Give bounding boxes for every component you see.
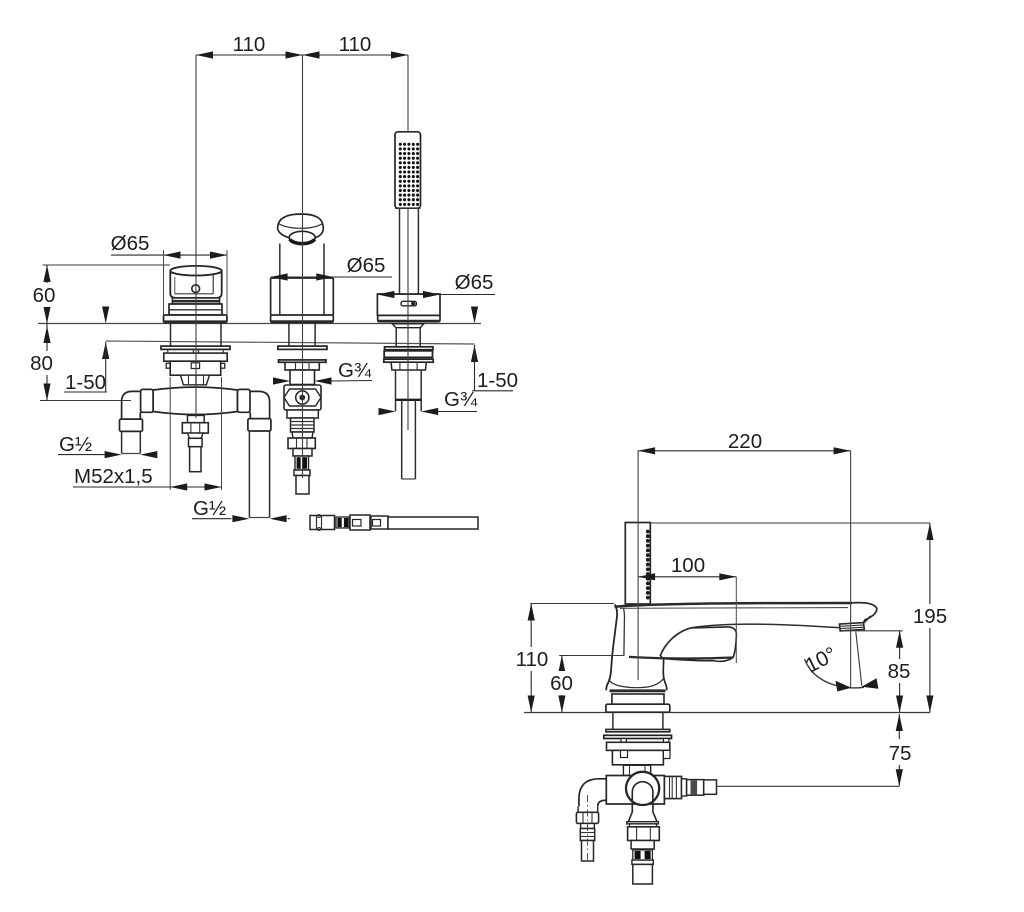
right port <box>664 776 681 798</box>
mounting block right view <box>612 750 663 764</box>
svg-text:Ø65: Ø65 <box>347 254 386 277</box>
svg-text:G½: G½ <box>59 433 92 456</box>
spout upper column <box>279 244 281 316</box>
handle stem below deck <box>170 323 172 347</box>
valve neck right view <box>623 765 650 775</box>
shower G3/4 tube <box>395 370 397 411</box>
220 right extension / outlet axis <box>850 451 852 688</box>
spout neck G3/4 <box>290 370 315 385</box>
spout body <box>271 277 334 279</box>
spout lower washer <box>287 410 318 418</box>
left elbow right view <box>579 779 606 807</box>
handle screw <box>192 285 200 293</box>
spout small section <box>293 449 312 457</box>
svg-text:110: 110 <box>233 33 266 56</box>
faucet body side profile <box>606 605 617 691</box>
escutcheon base right view <box>610 689 666 692</box>
dimension 80 vertical <box>40 400 131 402</box>
handle washer <box>161 346 230 349</box>
handle front panel <box>174 277 176 294</box>
aerator outlet <box>839 623 864 631</box>
hose column right view <box>625 523 650 605</box>
spout flange <box>271 315 334 322</box>
spout underside <box>662 624 841 652</box>
svg-text:110: 110 <box>339 33 372 56</box>
dimension 220 <box>638 450 851 452</box>
10 degree annotation <box>856 632 862 686</box>
shower ring 1 <box>385 347 433 350</box>
spout hose ring <box>294 470 310 476</box>
center line hand shower overlay <box>407 55 409 132</box>
mounting plate right view <box>607 742 670 750</box>
handle threaded rods <box>192 349 194 353</box>
left elbow pipe <box>122 391 141 419</box>
hose tube <box>388 517 478 529</box>
svg-text:M52x1,5: M52x1,5 <box>74 465 153 488</box>
spout washer <box>278 346 327 349</box>
label G3/4 spout <box>273 377 290 384</box>
deck bottom surface line left view <box>106 341 475 344</box>
svg-text:60: 60 <box>33 284 56 307</box>
washer 2 right view <box>604 735 672 738</box>
valve body right view <box>606 776 664 805</box>
body inner contour <box>623 609 626 657</box>
handle cap cylinder <box>170 271 221 298</box>
extension line 100 dimension overlay <box>735 577 737 663</box>
spout hex nut <box>288 438 315 449</box>
dimension 1-50 left deck thickness <box>102 307 109 324</box>
washer 1 right view <box>606 729 670 731</box>
spout outlet head <box>278 214 324 244</box>
dimension 75 <box>898 714 900 786</box>
spout side profile top edge <box>615 603 853 607</box>
valve ball circle <box>626 772 659 805</box>
shower ring 3 <box>384 359 433 362</box>
handle mounting plate <box>164 353 227 361</box>
handle neck <box>172 298 219 304</box>
valve body horizontal cylinder <box>153 387 237 414</box>
label M52x1,5 <box>169 377 171 490</box>
bottom port black bands <box>633 850 653 860</box>
dimension 110 left <box>196 54 303 56</box>
svg-text:100: 100 <box>671 554 705 577</box>
spout hose connector black bands <box>295 456 309 470</box>
svg-text:1-50: 1-50 <box>477 369 518 392</box>
shower trapezoid below deck <box>392 324 424 328</box>
spout hose tube <box>296 476 309 495</box>
shower stem <box>395 328 397 347</box>
dimension 195 <box>929 523 931 713</box>
dimension dia65 handle <box>111 254 227 256</box>
deck top surface line left view <box>38 323 481 325</box>
valve body left cap <box>141 389 154 412</box>
svg-text:75: 75 <box>889 742 912 765</box>
svg-text:85: 85 <box>888 660 911 683</box>
spout taper <box>292 432 313 438</box>
spout tip beak <box>848 603 877 623</box>
right elbow pipe <box>250 391 270 418</box>
outlet axis overlay <box>850 451 852 688</box>
svg-text:195: 195 <box>913 605 947 628</box>
valve body right cap <box>238 389 251 412</box>
dimension dia65 shower <box>377 294 495 296</box>
deck surface line right view <box>524 712 930 714</box>
spout nut <box>285 362 319 370</box>
handle flange escutcheon <box>164 315 228 323</box>
label G1/2 left <box>58 454 105 456</box>
shower narrow tube <box>401 400 403 479</box>
spout ribbed section <box>291 418 315 432</box>
svg-text:80: 80 <box>30 352 53 375</box>
dimension 60 right view <box>559 655 624 657</box>
extension line 220 left overlay <box>637 451 639 680</box>
center line spout overlay <box>302 55 304 478</box>
hose column beads <box>646 530 650 600</box>
holder slot <box>401 301 417 306</box>
svg-text:110: 110 <box>516 648 549 671</box>
spout stem below deck <box>288 322 290 346</box>
hand shower wand <box>399 208 401 294</box>
svg-text:60: 60 <box>550 672 573 695</box>
valve outlet stack below <box>188 415 205 422</box>
svg-text:G¾: G¾ <box>338 359 372 382</box>
hose fitting segment 1 <box>310 516 335 530</box>
svg-text:G½: G½ <box>193 497 226 520</box>
center line handle valve overlay <box>195 55 197 418</box>
svg-text:220: 220 <box>728 430 762 453</box>
handle base cylinder <box>169 304 222 315</box>
bottom port stack <box>627 822 659 824</box>
spout tip inner curve <box>864 616 870 623</box>
dimension 1-50 right <box>471 307 478 324</box>
mounting column right view <box>612 713 614 730</box>
dimension dia65 spout <box>271 276 392 278</box>
lever bottom shadow band <box>629 657 733 658</box>
spout washer 2 <box>279 360 327 362</box>
hand shower spray face dots <box>399 143 419 206</box>
shower nut <box>391 362 426 370</box>
220 left extension line <box>637 451 639 680</box>
dimension 110 right view <box>530 603 614 605</box>
svg-text:Ø65: Ø65 <box>111 232 150 255</box>
label G3/4 shower <box>379 408 396 415</box>
lever handle side view <box>660 627 736 661</box>
svg-text:Ø65: Ø65 <box>455 271 494 294</box>
spout hex fitting <box>284 385 321 410</box>
dimension 110 right <box>303 54 409 56</box>
dimension 85 <box>841 630 903 632</box>
inlet axis reference line <box>717 785 900 787</box>
label G1/2 right <box>192 518 231 520</box>
handle mounting block <box>166 363 170 368</box>
svg-text:1-50: 1-50 <box>65 371 106 394</box>
threaded rods right view <box>621 739 626 743</box>
hose block <box>350 515 370 530</box>
shower holder block <box>377 294 440 315</box>
svg-text:G¾: G¾ <box>444 388 478 411</box>
dimension 60 vertical <box>43 264 171 266</box>
handle thread section <box>180 375 209 385</box>
hand shower head <box>395 132 421 208</box>
hose black bands <box>336 517 349 528</box>
holder flange <box>378 315 440 321</box>
dimension 100 <box>638 576 736 578</box>
195 top reference line <box>650 522 930 524</box>
shower ring 2 <box>384 351 432 358</box>
hose small block <box>371 516 388 529</box>
